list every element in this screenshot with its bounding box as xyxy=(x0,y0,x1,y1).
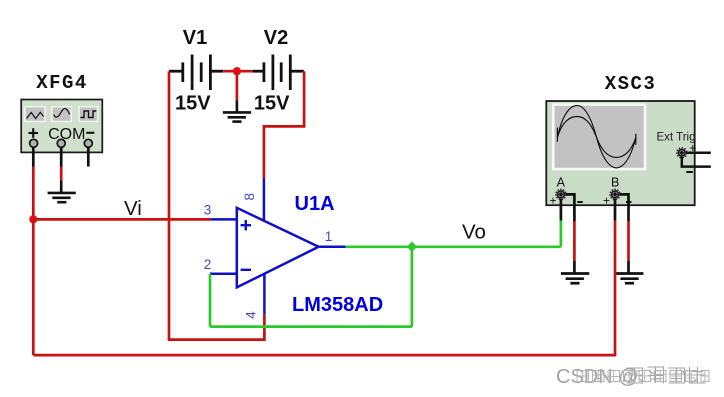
svg-text:COM: COM xyxy=(48,126,85,143)
wire XFG4 + down to node Vi xyxy=(32,167,35,220)
op-amp minus input mark xyxy=(241,269,251,271)
scope trace end tick xyxy=(635,134,637,145)
svg-text:Vi: Vi xyxy=(124,197,142,220)
wire feedback: across under op-amp xyxy=(210,325,412,328)
function generator XFG4 body xyxy=(21,100,102,153)
svg-text:LM358AD: LM358AD xyxy=(292,294,383,316)
oscilloscope XSC3 body xyxy=(546,101,694,205)
wire output Vo to scope A+ xyxy=(346,245,561,248)
channel B terminal xyxy=(610,189,620,199)
junction mid-rail node xyxy=(233,67,241,75)
triangle-wave button icon xyxy=(27,112,44,118)
scope B- pin stub xyxy=(619,194,628,221)
pin stub from XFG4 - (unconnected) xyxy=(87,147,90,167)
ground under scope B- xyxy=(616,261,643,283)
scope B+ pin stub xyxy=(614,199,617,221)
svg-text:+: + xyxy=(603,194,610,208)
Ext Trig terminal xyxy=(677,148,687,158)
wire scope B- to ground xyxy=(627,221,630,261)
pin 3 lead xyxy=(211,218,237,221)
XFG4 plus label xyxy=(29,128,39,138)
scope trace channel B (outer sine) xyxy=(557,105,635,167)
svg-text:2: 2 xyxy=(204,257,212,272)
scope A- pin stub xyxy=(565,194,574,221)
wire feedback: up to pin 2 xyxy=(209,274,212,327)
pin stub from XFG4 COM xyxy=(60,147,63,167)
svg-text:B: B xyxy=(611,176,619,190)
XFG4 terminal + xyxy=(30,139,38,147)
pin 1 lead (output) xyxy=(319,246,346,249)
svg-text:15V: 15V xyxy=(175,93,211,115)
wire V1+ to V2- (mid rail) xyxy=(223,70,252,73)
XFG4 terminal - xyxy=(84,139,92,147)
svg-text:15V: 15V xyxy=(254,93,290,115)
svg-text:U1A: U1A xyxy=(295,193,335,215)
svg-text:V1: V1 xyxy=(183,27,207,49)
pin 4 lead (V-) xyxy=(263,274,266,315)
scope trace channel A (inner sine) xyxy=(557,117,635,158)
op-amp plus input mark xyxy=(241,220,251,230)
watermark hanzi glyphs (stylised) xyxy=(627,367,706,383)
channel A terminal xyxy=(556,189,566,199)
wire Vi node down to bottom rail xyxy=(32,219,35,355)
wire scope A+ riser (green) xyxy=(560,221,563,247)
watermark CSDN text xyxy=(556,366,709,388)
ground of supply mid rail xyxy=(223,101,251,122)
svg-text:3: 3 xyxy=(204,203,212,218)
battery V1 xyxy=(169,55,223,91)
svg-text:A: A xyxy=(557,176,566,190)
scope A+ pin stub xyxy=(560,199,563,221)
oscilloscope screen xyxy=(552,103,646,170)
svg-text:8: 8 xyxy=(242,193,257,201)
wire XFG4 COM to ground xyxy=(60,167,63,181)
channel B minus label xyxy=(626,201,631,203)
svg-text:V2: V2 xyxy=(264,27,288,49)
Ext Trig + pin stub xyxy=(686,152,711,155)
channel A minus label xyxy=(577,201,582,203)
wire bottom rail to scope B+ xyxy=(33,221,615,356)
sine-wave button icon xyxy=(54,108,70,117)
pin stub from XFG4 + xyxy=(32,147,35,167)
XFG4 terminal COM xyxy=(57,139,65,147)
ground under scope A- xyxy=(561,261,589,283)
node Vi junction xyxy=(29,215,37,223)
XFG4 minus label xyxy=(86,132,94,134)
svg-text:XFG4: XFG4 xyxy=(36,72,88,94)
wire mid rail down to ground xyxy=(236,71,239,100)
square-wave button icon xyxy=(81,111,97,118)
svg-text:Vo: Vo xyxy=(462,221,486,244)
watermark overlay text (stylised) xyxy=(577,371,709,382)
svg-text:1: 1 xyxy=(325,229,333,244)
svg-text:4: 4 xyxy=(244,311,259,319)
scope trace start tick xyxy=(556,128,558,142)
Ext Trig minus label xyxy=(686,171,693,173)
node Vo junction xyxy=(407,242,417,252)
wire Vi horizontal to op-amp pin 3 xyxy=(33,218,211,221)
pin 8 lead (V+) xyxy=(263,179,266,222)
wire V1- down, across, up to op-amp pin 4 (V-) xyxy=(169,71,264,339)
battery V2 xyxy=(252,55,303,91)
svg-text:XSC3: XSC3 xyxy=(605,73,657,95)
svg-text:CSDN @: CSDN @ xyxy=(556,366,639,388)
wire feedback: down from Vo node xyxy=(411,247,414,327)
wire scope A- to ground xyxy=(573,221,576,261)
Ext Trig - pin stub xyxy=(682,157,711,167)
op-amp U1A triangle xyxy=(237,208,319,288)
pin 2 lead xyxy=(210,273,237,276)
ground under XFG4 COM xyxy=(48,181,76,203)
svg-text:+: + xyxy=(549,194,556,208)
wire V2+ down and left to op-amp pin 8 (V+) xyxy=(264,71,304,178)
